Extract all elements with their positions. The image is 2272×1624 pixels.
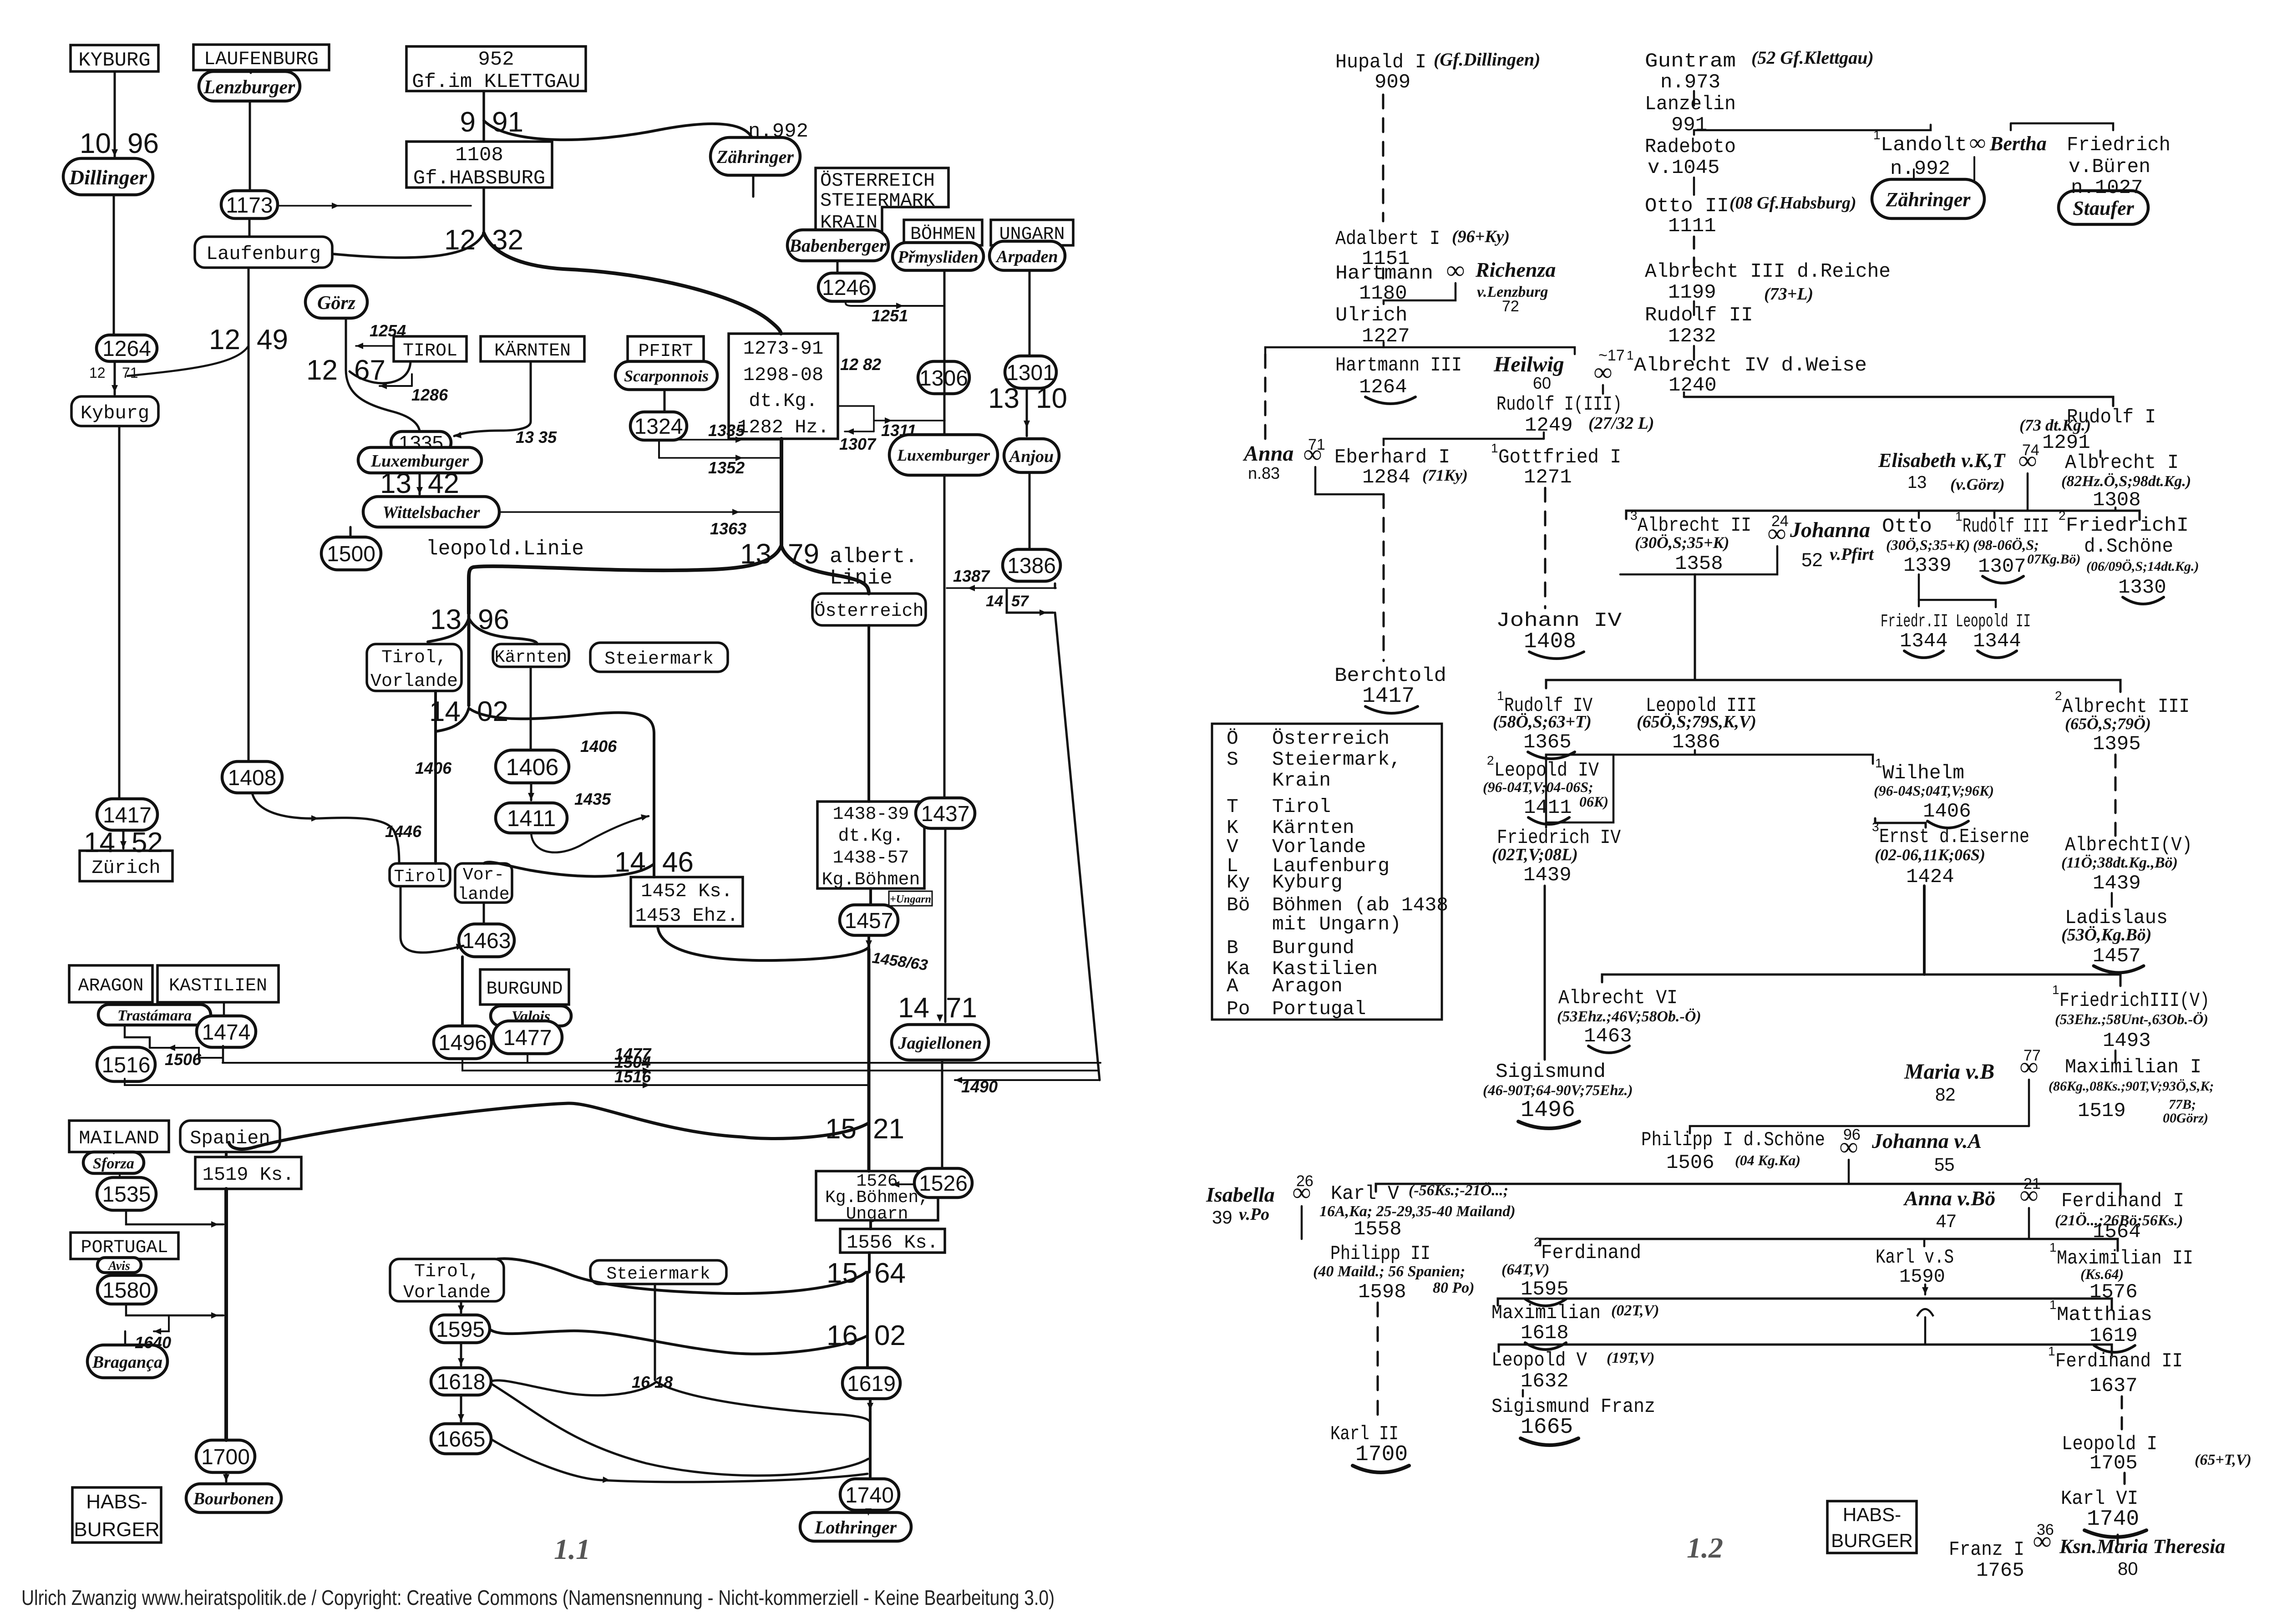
svg-text:leopold.Linie: leopold.Linie [426,537,584,561]
box TIROL [394,336,467,361]
oval Luxemburger left [358,447,482,473]
wire 1335-line [662,439,779,441]
svg-text:1519 Ks.: 1519 Ks. [203,1164,294,1186]
svg-text:d.Schöne: d.Schöne [2084,535,2173,558]
svg-text:Burgund: Burgund [1272,937,1354,959]
svg-text:Maximilian I: Maximilian I [2065,1056,2201,1079]
wire 1339-riser [1918,574,1920,600]
wire bracket ulrich-children [1265,347,1575,354]
svg-text:1344: 1344 [1973,630,2021,653]
label Tirol 2 [390,863,450,887]
svg-text:1264: 1264 [1359,376,1407,399]
svg-text:Hupald I: Hupald I [1335,51,1426,74]
svg-text:Anna: Anna [1242,442,1293,466]
wire 1307-line [845,431,874,432]
svg-text:Radeboto: Radeboto [1645,136,1736,158]
arrowhead 1477-long [643,1060,650,1066]
box ARAGON [69,965,152,1002]
svg-text:952: 952 [478,48,514,71]
wire 1273box-fork1379 [780,439,783,545]
label Tirol Vorlande [367,644,461,692]
svg-text:Tirol,: Tirol, [414,1262,480,1282]
svg-text:∞: ∞ [2018,447,2037,475]
svg-text:Steiermark: Steiermark [604,649,714,670]
svg-text:Tirol: Tirol [1272,796,1331,818]
swash 1463 [1588,1046,1629,1053]
oval 1408 [222,761,282,793]
svg-text:(53Ehz.;58Unt-,63Ob.-Ö): (53Ehz.;58Unt-,63Ob.-Ö) [2055,1011,2208,1027]
svg-text:mit Ungarn): mit Ungarn) [1272,913,1401,935]
wire avis-1580 [119,1273,121,1275]
svg-text:dt.Kg.: dt.Kg. [838,826,903,847]
wire 1463-1496 [461,957,464,1026]
box HABS-BURGER right [1827,1501,1917,1553]
oval 1246 [818,273,874,301]
box 1556 Ks. [840,1229,945,1254]
svg-text:13: 13 [988,383,1019,414]
svg-text:(65+T,V): (65+T,V) [2195,1451,2252,1468]
svg-text:2: 2 [1534,1235,1541,1249]
arrowhead 1310 [1024,421,1030,428]
arrowhead 1307 [847,428,854,435]
oval 1437 [916,798,975,828]
svg-text:BURGER: BURGER [1831,1530,1913,1551]
svg-text:1273-91: 1273-91 [743,338,823,360]
oval Sforza [83,1152,144,1173]
wire fork991-zaehringer [484,121,752,140]
wire albrechtIV-riser [1683,392,1685,397]
wire bracket ernst-children [1602,974,2120,986]
box HABS-BURGER left [72,1487,161,1543]
oval 1457 [840,905,898,935]
wire tirol-merge-goerz [350,361,411,383]
svg-text:1424: 1424 [1906,866,1954,888]
wire fork1402-right [469,708,654,877]
wire fork1379-albert [781,546,869,594]
svg-text:(65Ö,S;79Ö): (65Ö,S;79Ö) [2065,715,2151,733]
wire 1249-riser [1543,432,1545,439]
svg-text:Philipp II: Philipp II [1330,1243,1430,1265]
wire 1151-tick [1382,269,1384,279]
svg-text:Rudolf II: Rudolf II [1645,304,1753,327]
svg-text:Ö: Ö [1227,727,1238,750]
svg-text:KÄRNTEN: KÄRNTEN [494,340,571,361]
svg-text:13 35: 13 35 [516,428,557,447]
svg-text:1439: 1439 [2093,872,2141,895]
wire 1301-anjou [1026,388,1028,436]
svg-text:(53Ö,Kg.Bö): (53Ö,Kg.Bö) [2061,925,2151,944]
box KYBURG [71,45,158,72]
svg-text:1199: 1199 [1668,281,1716,304]
svg-text:1500: 1500 [327,542,375,566]
svg-text:64: 64 [874,1258,906,1289]
svg-text:1358: 1358 [1675,553,1723,575]
svg-text:PFIRT: PFIRT [638,341,693,362]
wire 1504-longline [462,1059,1099,1071]
box BOEHMEN [904,220,982,245]
wire wittelsbacher-1500 [350,527,352,537]
svg-text:(86Kg.,08Ks.;90T,V;93Ö,S,K;: (86Kg.,08Ks.;90T,V;93Ö,S,K; [2049,1079,2214,1094]
oval 1324 [630,412,687,440]
swash 1408 [1529,652,1584,659]
wire 1411-1435-curve [531,816,649,853]
svg-text:06K): 06K) [1579,793,1608,810]
svg-text:2: 2 [1487,753,1494,767]
svg-text:1363: 1363 [710,519,746,538]
svg-text:Avis: Avis [107,1259,130,1273]
svg-text:1411: 1411 [1524,797,1572,819]
svg-text:1438-39: 1438-39 [832,804,909,825]
arrowhead karlvs [1922,1287,1928,1294]
oval 1700 [196,1440,255,1472]
svg-text:1232: 1232 [1668,325,1716,348]
box KASTILIEN [157,965,279,1002]
svg-text:14: 14 [429,696,461,727]
svg-text:1446: 1446 [385,822,422,841]
wire 1619-down [869,1399,872,1410]
wire 1395 dashed [2115,755,2117,843]
svg-text:T: T [1227,796,1238,818]
wire johanna-elbow [1620,546,1777,574]
swash 1365 [1528,752,1575,759]
oval Wittelsbacher [363,497,499,527]
svg-text:1411: 1411 [507,806,556,831]
svg-text:STEIERMARK: STEIERMARK [820,190,935,212]
wire 1286-hook [411,374,413,386]
svg-text:n.83: n.83 [1248,464,1280,482]
oval 1264 [96,335,157,361]
wire 1477-longline [223,1062,1100,1064]
svg-text:Jagiellonen: Jagiellonen [898,1034,982,1053]
wire 1246-elbow-1251 [846,301,943,306]
svg-text:1406: 1406 [415,759,452,777]
svg-text:Bourbonen: Bourbonen [193,1489,274,1508]
wire fork991-1108 [482,121,485,142]
svg-text:Gf.HABSBURG: Gf.HABSBURG [413,167,545,190]
arrowhead 1535 [211,1221,218,1228]
wire leopoldI dashed [2124,1473,2126,1485]
svg-text:Rudolf III: Rudolf III [1963,515,2049,538]
arrowhead 1173-right [332,203,339,209]
svg-text:Dillinger: Dillinger [69,166,147,189]
svg-text:1.2: 1.2 [1687,1532,1723,1564]
svg-text:1665: 1665 [437,1427,486,1451]
svg-text:1474: 1474 [202,1020,251,1045]
wire fork1396-kaernten [469,618,537,644]
wire anjou-1386 [1029,472,1031,549]
svg-text:1463: 1463 [1584,1025,1632,1048]
wire 1199-tick [1693,301,1695,315]
wire fork1618-mainline [656,1382,869,1421]
wire heilwig-elbow [1602,385,1604,394]
svg-text:(82Hz.Ö,S;98dt.Kg.): (82Hz.Ö,S;98dt.Kg.) [2061,473,2191,490]
swash 1307 [1983,576,2023,583]
svg-text:(-56Ks.;-21Ö...;: (-56Ks.;-21Ö...; [1409,1182,1508,1199]
swash 1457 [2094,966,2144,973]
wire laufenburg-1408 [248,268,250,761]
svg-text:Elisabeth v.K,T: Elisabeth v.K,T [1878,449,2006,472]
svg-text:(96+Ky): (96+Ky) [1452,227,1510,246]
wire premysliden-luxR [943,270,946,435]
svg-text:Matthias: Matthias [2057,1304,2152,1326]
wire 1408-to-1446 [252,793,399,863]
wire 1474-down [222,1046,224,1063]
svg-text:1590: 1590 [1899,1266,1945,1288]
svg-text:Wittelsbacher: Wittelsbacher [383,503,481,522]
wire gottfried dashed [1544,488,1547,608]
wire bracket ferdinand-children [1540,1239,2118,1251]
arrowhead 1264-kyburg [112,385,118,392]
oval Lothringer [800,1512,911,1541]
wire bracket albrechtIV-rudolfI [1684,397,2113,406]
wire 1452box-to-1457area [658,926,868,960]
svg-text:Eberhard I: Eberhard I [1334,446,1450,469]
svg-text:(96-04S;04T,V;96K): (96-04S;04T,V;96K) [1874,782,1994,799]
wire fork1564-tirolvorlande2 [497,1259,866,1294]
wire 1264-kyburg [114,361,116,395]
svg-text:∞: ∞ [2020,1181,2038,1209]
oval Bourbonen [186,1484,281,1512]
svg-text:(30Ö,S;35+K): (30Ö,S;35+K) [1886,537,1970,553]
svg-text:lande: lande [457,885,509,904]
wire laufenburg-lenzburger [250,70,252,73]
svg-text:Kärnten: Kärnten [495,648,568,667]
svg-text:(64T,V): (64T,V) [1501,1261,1549,1278]
oval Braganca [87,1345,167,1378]
arrowhead 1352-line [735,455,743,461]
svg-text:55: 55 [1934,1155,1955,1175]
svg-text:1: 1 [1497,689,1504,703]
svg-text:LAUFENBURG: LAUFENBURG [204,48,319,70]
svg-text:1: 1 [1875,756,1882,770]
svg-text:1286: 1286 [411,386,448,404]
svg-text:(96-04T,V;04-06S;: (96-04T,V;04-06S; [1483,779,1593,795]
svg-text:Hartmann: Hartmann [1335,262,1433,285]
svg-text:v.1045: v.1045 [1648,157,1719,179]
oval 1526 [914,1168,972,1198]
wire bracket leopoldIII-children [1546,755,1873,764]
wire 1618-mainline [491,1384,868,1476]
oval Babenberger [787,230,888,261]
svg-text:1618: 1618 [1521,1322,1569,1345]
wire 1632-tick [1522,1390,1524,1396]
wire 1490-line [955,1079,1100,1081]
wire 1526oval-arrow [892,1183,914,1185]
svg-text:Maximilian: Maximilian [1491,1302,1601,1325]
svg-text:1595: 1595 [436,1318,485,1342]
svg-text:1307: 1307 [839,435,877,453]
wire 1640-branch [154,1315,169,1331]
svg-text:1452 Ks.: 1452 Ks. [641,880,733,902]
svg-text:Albrecht III d.Reiche: Albrecht III d.Reiche [1645,260,1891,283]
svg-text:9: 9 [460,107,476,138]
svg-text:(11Ö;38dt.Kg.,Bö): (11Ö;38dt.Kg.,Bö) [2061,854,2178,871]
svg-text:Přmysliden: Přmysliden [897,248,978,267]
svg-text:1558: 1558 [1354,1218,1402,1241]
wire fork1602-1619 [866,1336,869,1368]
svg-text:52: 52 [132,827,163,858]
svg-text:(71Ky): (71Ky) [1422,466,1468,484]
svg-text:Sigismund Franz: Sigismund Franz [1491,1396,1655,1418]
svg-text:FriedrichIII(V): FriedrichIII(V) [2059,990,2210,1012]
svg-text:(58Ö,S;63+T): (58Ö,S;63+T) [1493,712,1592,731]
svg-text:16A,Ka; 25-29,35-40 Mailand): 16A,Ka; 25-29,35-40 Mailand) [1319,1203,1516,1220]
wire albrechtII-desc [1694,574,1696,680]
svg-text:ÖSTERREICH: ÖSTERREICH [820,170,935,192]
wire rudolfII-tick [1693,346,1695,360]
label Spanien [180,1121,280,1152]
svg-text:1298-08: 1298-08 [743,364,823,386]
svg-text:13: 13 [1907,473,1927,492]
svg-text:1417: 1417 [103,803,152,827]
wire luxR-1437 [943,475,946,798]
svg-text:1249: 1249 [1525,414,1573,437]
wire 1254-arrow [356,345,394,347]
svg-text:Bertha: Bertha [1989,132,2047,155]
wire 1406-1411 [530,783,532,800]
wire albertspine-1521 [867,949,871,1123]
svg-text:Ulrich: Ulrich [1335,304,1407,327]
svg-text:1406: 1406 [1923,800,1971,823]
svg-text:n.1027: n.1027 [2071,177,2143,199]
wire spanien-1519 [225,1152,228,1157]
svg-text:dt.Kg.: dt.Kg. [749,390,817,412]
arrowhead 1408-curve [311,815,319,822]
svg-text:n.992: n.992 [1890,157,1950,180]
wire 1286-arrowline [380,385,412,387]
svg-text:(04 Kg.Ka): (04 Kg.Ka) [1735,1152,1800,1168]
oval Trastamara [98,1005,211,1025]
wire eberhard-elbow [1315,467,1384,494]
svg-text:1271: 1271 [1524,466,1572,489]
svg-text:57: 57 [1011,593,1029,610]
wire karlvs-line2 [1924,1317,1927,1345]
wire fork1521-1526box [867,1123,871,1171]
arrowhead 1595-1618 [458,1358,464,1365]
wire 1740-tick [2117,1535,2119,1544]
swash 1417 [1365,706,1418,713]
svg-text:v.Pfirt: v.Pfirt [1830,545,1874,564]
svg-text:1301: 1301 [1006,361,1055,385]
oval Valois [491,1006,571,1026]
svg-text:Landolt: Landolt [1881,134,1967,157]
wire 1417-zuerich [122,830,125,848]
box 952 Gf.im KLETTGAU [406,46,586,93]
svg-text:Tirol,: Tirol, [381,648,447,668]
svg-text:Aragon: Aragon [1272,975,1343,997]
box Leopold IV frame [1546,755,1613,822]
wire leopoldspine-1396-1402 [467,615,471,705]
svg-text:(02-06,11K;06S): (02-06,11K;06S) [1875,846,1985,864]
wire elisabeth-drop [2027,473,2029,511]
wire luxL-wittelsbacher [419,473,421,494]
svg-text:∞: ∞ [1969,130,1986,155]
wire hartmann-elbow [1384,283,1455,304]
svg-text:1108: 1108 [455,144,503,167]
oval 1595 [431,1315,490,1343]
wire berchtold dashed [1383,494,1385,661]
arrowhead 1335-line [735,436,743,443]
svg-text:n.992: n.992 [748,120,808,143]
svg-text:02: 02 [477,696,508,727]
wire jagiellonen-1526 [941,1060,943,1168]
svg-text:02: 02 [874,1320,906,1351]
swash 1700 [1353,1466,1409,1472]
svg-text:39: 39 [1212,1208,1232,1228]
wire bracket leopoldIII-siblings [1546,680,2120,692]
oval 1500 [321,537,381,570]
svg-text:Friedr.II Leopold II: Friedr.II Leopold II [1881,612,2031,632]
svg-text:60: 60 [1533,374,1551,392]
wire fork1618-1618oval [492,1380,656,1396]
wire 1700-bourbonen [225,1472,228,1482]
oval Jagiellonen [892,1025,989,1060]
svg-text:(52 Gf.Klettgau): (52 Gf.Klettgau) [1751,47,1874,68]
svg-text:80: 80 [2118,1559,2138,1579]
svg-text:1386: 1386 [1672,731,1720,754]
label Kyburg [71,396,158,426]
svg-text:Ernst d.Eiserne: Ernst d.Eiserne [1879,826,2029,848]
oval Premysliden [893,243,984,270]
svg-text:HABS-: HABS- [86,1491,147,1513]
swash 1344a [1904,651,1943,658]
svg-text:1580: 1580 [102,1279,151,1303]
svg-text:(53Ehz.;46V;58Ob.-Ö): (53Ehz.;46V;58Ob.-Ö) [1557,1008,1701,1025]
svg-text:Johanna: Johanna [1790,518,1870,542]
svg-text:71: 71 [946,992,977,1024]
wire 1618-1665 [460,1395,462,1421]
wire ottoII dashed [1693,237,1695,268]
wire 1516-longline [125,1079,867,1085]
wire braganca-drop [124,1331,127,1345]
svg-text:1417: 1417 [1362,684,1415,709]
svg-text:1438-57: 1438-57 [832,848,909,868]
wire 1437-jagiellonen [944,828,947,1022]
wire annaBoe-drop [2028,1208,2030,1239]
svg-text:Po: Po [1227,998,1250,1020]
wire philippJohanna-drop [1848,1160,1850,1184]
svg-text:1406: 1406 [506,754,559,781]
svg-text:Lenzburger: Lenzburger [203,77,295,98]
svg-text:42: 42 [428,468,459,499]
wire 1291-tick [2100,451,2102,457]
svg-text:1227: 1227 [1362,325,1410,348]
wire wilhelm-ernst-elbow [1875,818,1926,827]
svg-text:Rudolf I(III): Rudolf I(III) [1496,393,1622,416]
svg-text:1496: 1496 [438,1031,487,1055]
svg-text:Ungarn: Ungarn [846,1204,908,1224]
box OESTERREICH STEIERMARK KRAIN [816,168,948,233]
wire bracket leopoldV-row [1499,1345,2112,1355]
svg-text:(02T,V;08L): (02T,V;08L) [1492,845,1578,864]
oval Scarponnois [615,361,717,390]
wire goerz-1335 [346,318,420,431]
svg-text:Luxemburger: Luxemburger [897,446,990,464]
arrowhead 1619-down [867,1403,873,1410]
svg-text:∞: ∞ [2020,1053,2038,1081]
svg-text:1: 1 [2049,1298,2057,1312]
wire philippII dashed [1377,1303,1379,1420]
wire 1740-lothringer [868,1510,871,1511]
oval 1665 [431,1424,491,1454]
wire rudolfIII-tick [1993,511,1996,518]
svg-text:Kyburg: Kyburg [81,402,149,424]
svg-text:1344: 1344 [1900,630,1948,653]
svg-text:1506: 1506 [1666,1152,1714,1174]
wire ferdinandII dashed [2121,1396,2123,1429]
svg-text:1: 1 [1627,348,1634,362]
wire 1173-arrow-right [278,205,471,207]
